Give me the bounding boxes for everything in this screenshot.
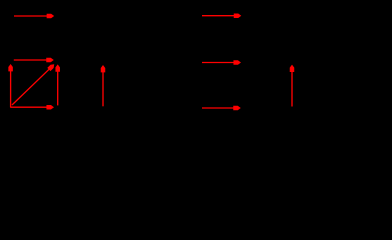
arrow row1 left: [14, 15, 48, 17]
square: diagonal arrow (up-right): [12, 69, 50, 105]
square: right vertical arrow (up): [57, 71, 59, 106]
arrow row1 middle: [202, 15, 235, 17]
arrow row3 middle: [202, 107, 234, 109]
middle vertical arrow (up): [102, 71, 104, 106]
square: left vertical arrow (up): [10, 70, 12, 107]
arrow row2 middle: [202, 62, 234, 64]
commutative diagram: red arrows on black background: [0, 0, 392, 125]
square: bottom arrow: [10, 106, 47, 108]
square: top arrow: [14, 59, 47, 61]
right vertical arrow (up): [291, 71, 293, 107]
